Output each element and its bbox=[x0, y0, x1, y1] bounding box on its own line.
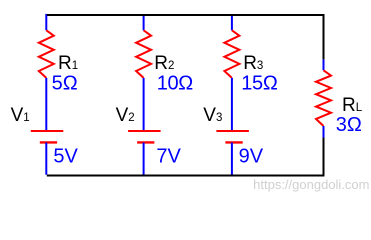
battery V1 negative plate bbox=[40, 141, 57, 143]
wire branch3 top stub bbox=[231, 15, 233, 30]
wire top rail bbox=[47, 14, 324, 16]
svg-text:5V: 5V bbox=[53, 145, 78, 167]
svg-text:9V: 9V bbox=[239, 146, 264, 168]
svg-text:R1: R1 bbox=[58, 53, 78, 74]
wire branch1 bottom bbox=[45, 143, 47, 175]
resistor R2 bbox=[136, 30, 151, 78]
svg-text:R2: R2 bbox=[154, 53, 174, 74]
resistor RL bbox=[316, 70, 331, 126]
wire right branch upper blue stub bbox=[323, 59, 325, 70]
wire right branch lower black bbox=[323, 138, 325, 177]
resistor R3 bbox=[224, 30, 239, 78]
wire branch1 top stub bbox=[45, 14, 47, 30]
resistor R1 bbox=[39, 30, 54, 78]
svg-text:15Ω: 15Ω bbox=[241, 72, 278, 94]
wire branch2 mid bbox=[143, 78, 145, 131]
svg-text:5Ω: 5Ω bbox=[52, 72, 78, 94]
svg-text:V3: V3 bbox=[203, 105, 222, 126]
svg-text:7V: 7V bbox=[156, 146, 181, 168]
svg-text:3Ω: 3Ω bbox=[336, 114, 362, 136]
wire right branch lower blue stub bbox=[323, 126, 325, 138]
wire branch3 bottom bbox=[231, 143, 233, 175]
battery V1 positive plate bbox=[31, 130, 64, 132]
wire branch2 top stub bbox=[143, 15, 145, 30]
svg-text:R3: R3 bbox=[243, 53, 263, 74]
battery V3 positive plate bbox=[216, 130, 249, 132]
svg-text:https://gongdoli.com: https://gongdoli.com bbox=[253, 177, 369, 192]
svg-text:10Ω: 10Ω bbox=[157, 72, 193, 94]
wire bottom rail bbox=[47, 175, 325, 177]
svg-text:V2: V2 bbox=[116, 105, 135, 126]
wire right branch upper black bbox=[323, 14, 325, 59]
wire branch1 mid bbox=[45, 78, 47, 131]
wire branch3 mid bbox=[231, 78, 233, 131]
svg-text:V1: V1 bbox=[11, 105, 30, 126]
battery V2 positive plate bbox=[128, 130, 161, 132]
battery V3 negative plate bbox=[225, 141, 242, 143]
battery V2 negative plate bbox=[137, 141, 154, 143]
wire branch2 bottom bbox=[143, 143, 145, 175]
